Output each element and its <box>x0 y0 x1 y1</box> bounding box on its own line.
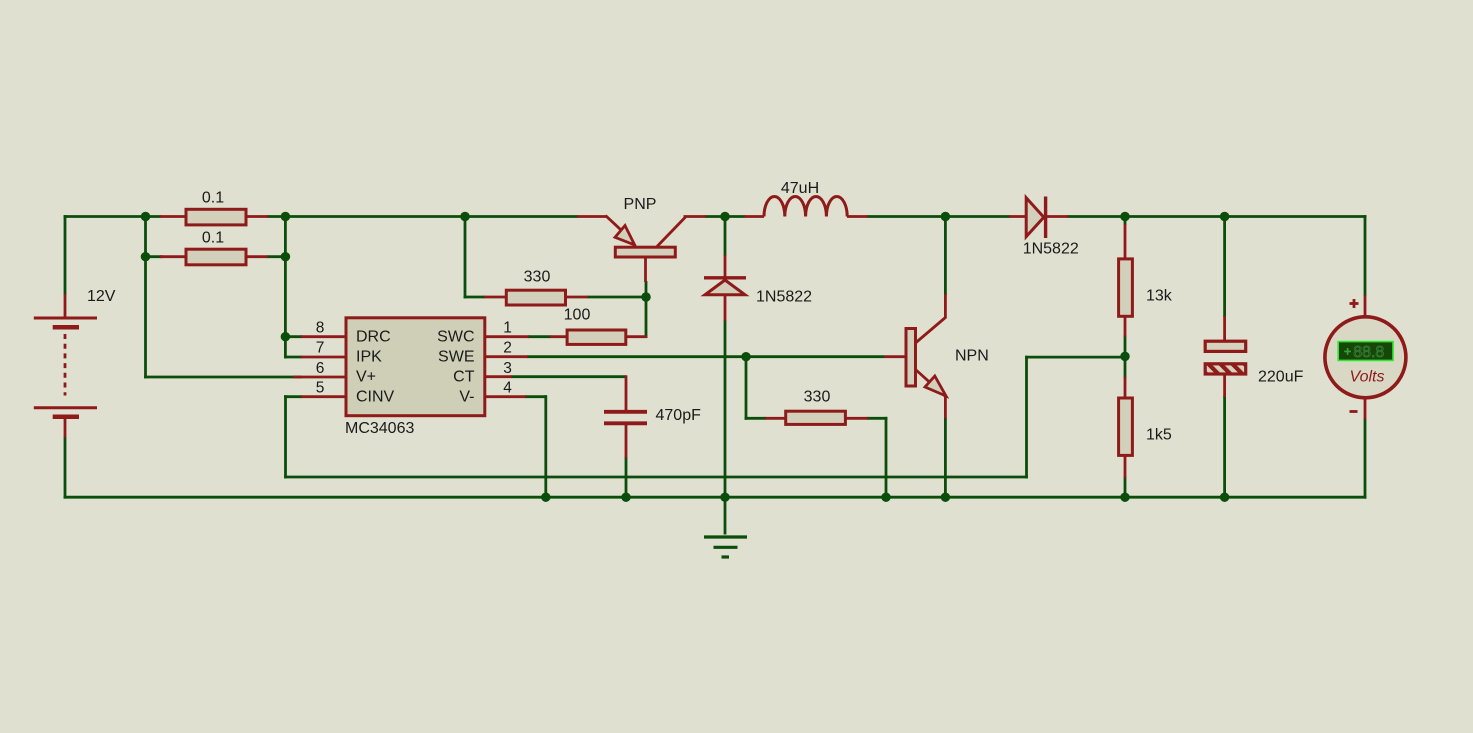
svg-text:5: 5 <box>316 380 325 397</box>
svg-text:2: 2 <box>503 340 512 357</box>
svg-text:220uF: 220uF <box>1258 369 1304 386</box>
svg-text:0.1: 0.1 <box>202 190 224 207</box>
svg-text:7: 7 <box>316 340 325 357</box>
svg-text:3: 3 <box>503 360 512 377</box>
svg-text:330: 330 <box>804 389 831 406</box>
svg-text:470pF: 470pF <box>656 407 702 424</box>
svg-text:NPN: NPN <box>955 348 989 365</box>
svg-text:DRC: DRC <box>356 329 391 346</box>
svg-text:MC34063: MC34063 <box>345 420 414 437</box>
svg-text:8: 8 <box>316 319 325 336</box>
svg-text:IPK: IPK <box>356 349 382 366</box>
svg-text:1N5822: 1N5822 <box>1023 241 1079 258</box>
svg-text:6: 6 <box>316 360 325 377</box>
svg-text:1N5822: 1N5822 <box>756 289 812 306</box>
svg-text:SWC: SWC <box>437 329 474 346</box>
svg-text:0.1: 0.1 <box>202 230 224 247</box>
svg-text:CT: CT <box>453 369 475 386</box>
svg-text:V+: V+ <box>356 369 376 386</box>
svg-text:SWE: SWE <box>438 349 474 366</box>
svg-text:V-: V- <box>459 389 474 406</box>
svg-text:13k: 13k <box>1146 288 1173 305</box>
svg-text:1k5: 1k5 <box>1146 427 1172 444</box>
svg-text:1: 1 <box>503 319 512 336</box>
svg-text:100: 100 <box>564 307 591 324</box>
svg-text:PNP: PNP <box>624 196 657 213</box>
svg-text:330: 330 <box>524 269 551 286</box>
svg-text:47uH: 47uH <box>781 180 819 197</box>
svg-text:12V: 12V <box>87 288 116 305</box>
svg-text:Volts: Volts <box>1350 369 1385 386</box>
svg-text:4: 4 <box>503 380 512 397</box>
svg-text:88.8: 88.8 <box>1353 344 1384 361</box>
svg-text:CINV: CINV <box>356 389 395 406</box>
